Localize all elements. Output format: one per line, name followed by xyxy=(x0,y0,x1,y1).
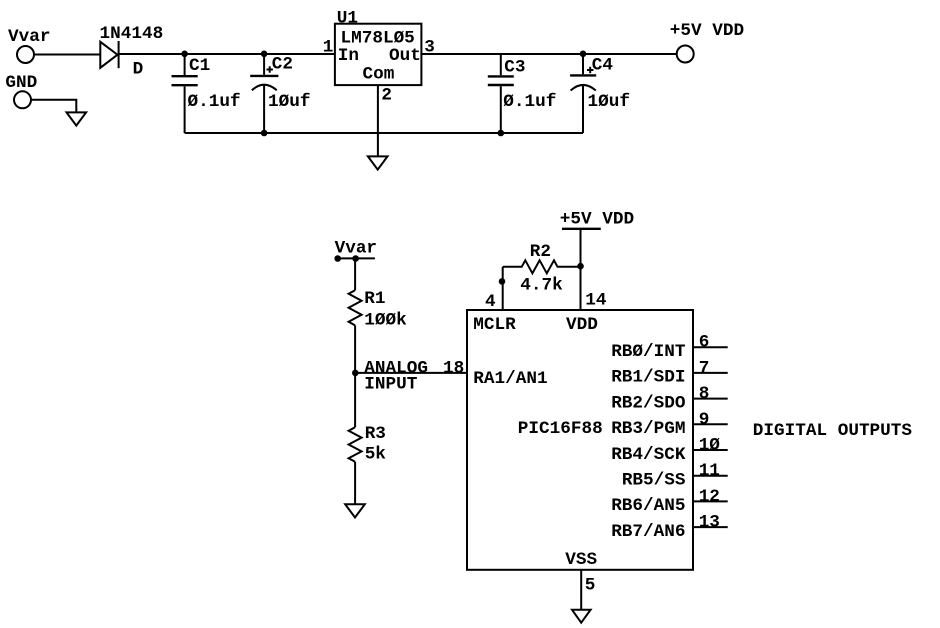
wire Vvar to R1 xyxy=(354,258,356,290)
svg-text:GND: GND xyxy=(5,73,37,93)
svg-text:RB1/SDI: RB1/SDI xyxy=(611,368,685,388)
op-amp U2 PIC16F88 box xyxy=(467,310,693,570)
wire pin 13 xyxy=(693,526,728,528)
label C2 plus sign xyxy=(267,66,273,72)
svg-text:MCLR: MCLR xyxy=(473,315,516,335)
wire pin 9 xyxy=(693,423,728,425)
wire pin 10 xyxy=(693,449,728,451)
svg-text:VDD: VDD xyxy=(566,315,598,335)
resistor R1 xyxy=(349,290,362,325)
wire pin 6 xyxy=(693,346,728,348)
wire pin 7 xyxy=(693,372,728,374)
svg-text:Ø.1uf: Ø.1uf xyxy=(503,92,556,112)
wire analog node to R3 xyxy=(354,373,356,427)
svg-text:R3: R3 xyxy=(365,424,386,444)
wire Vvar to diode anode xyxy=(34,54,100,56)
svg-text:RB5/SS: RB5/SS xyxy=(622,471,686,491)
power +5V VDD bar xyxy=(562,228,601,230)
node junction dot MCLR wire xyxy=(499,278,506,285)
ground below U1 xyxy=(368,156,388,169)
wire R3 to ground xyxy=(354,462,356,505)
svg-text:C1: C1 xyxy=(189,56,210,76)
svg-text:4.7k: 4.7k xyxy=(520,276,563,296)
wire VSS pin 5 down xyxy=(580,570,582,610)
svg-text:RB6/AN5: RB6/AN5 xyxy=(611,496,685,516)
svg-text:11: 11 xyxy=(699,461,720,481)
wire +5V to pin 14 xyxy=(580,229,582,310)
capacitor C4 electrolytic xyxy=(570,54,596,133)
svg-text:7: 7 xyxy=(699,358,710,378)
node junction dot C4 top xyxy=(580,51,587,58)
wire MCLR pin 4 up xyxy=(502,267,504,310)
svg-text:Com: Com xyxy=(363,64,395,84)
svg-text:C3: C3 xyxy=(504,58,525,78)
node junction dot C2 bottom on rail xyxy=(261,130,268,137)
svg-text:PIC16F88: PIC16F88 xyxy=(518,419,603,439)
svg-text:RB3/PGM: RB3/PGM xyxy=(611,419,685,439)
wire U1 pin 3 to +5V terminal xyxy=(421,53,676,55)
svg-text:1ØØk: 1ØØk xyxy=(364,311,407,331)
svg-text:1Ø: 1Ø xyxy=(699,436,721,456)
wire pin 8 xyxy=(693,398,728,400)
op-amp U1 LM78L05 regulator box xyxy=(335,24,422,85)
svg-text:D: D xyxy=(133,60,144,80)
capacitor C2 electrolytic xyxy=(250,54,278,133)
ground below VSS xyxy=(572,610,591,623)
svg-text:RB4/SCK: RB4/SCK xyxy=(611,445,686,465)
node junction dot Vvar left xyxy=(334,255,341,262)
svg-text:12: 12 xyxy=(699,487,720,507)
svg-text:+5V VDD: +5V VDD xyxy=(670,21,744,41)
svg-text:R2: R2 xyxy=(530,242,551,262)
terminal +5V VDD circle xyxy=(677,46,694,63)
wire pin 12 xyxy=(693,500,728,502)
capacitor C3 xyxy=(488,54,514,133)
wire analog node to pin 18 xyxy=(355,372,467,374)
svg-text:RB2/SDO: RB2/SDO xyxy=(611,393,685,413)
svg-text:R1: R1 xyxy=(364,289,385,309)
wire Vvar stub xyxy=(337,257,375,259)
svg-text:5k: 5k xyxy=(365,444,387,464)
svg-text:5: 5 xyxy=(585,575,596,595)
node junction dot Vvar tap xyxy=(352,255,359,262)
label C4 plus sign xyxy=(587,67,593,73)
svg-text:Ø.1uf: Ø.1uf xyxy=(188,92,241,112)
terminal Vvar circle xyxy=(17,46,34,63)
capacitor C1 xyxy=(172,54,198,133)
svg-text:8: 8 xyxy=(699,384,710,404)
wire diode cathode to U1 pin 1 xyxy=(119,53,335,55)
svg-text:In: In xyxy=(338,46,359,66)
node junction dot R2 right xyxy=(577,263,584,270)
svg-text:1N4148: 1N4148 xyxy=(100,24,164,44)
svg-text:Out: Out xyxy=(389,46,421,66)
svg-text:1Øuf: 1Øuf xyxy=(268,92,310,112)
svg-text:2: 2 xyxy=(381,85,392,105)
svg-text:Vvar: Vvar xyxy=(8,27,50,47)
svg-text:VSS: VSS xyxy=(565,550,597,570)
svg-text:C2: C2 xyxy=(272,54,293,74)
terminal GND circle xyxy=(14,91,31,108)
svg-text:13: 13 xyxy=(699,513,720,533)
wire ground rail under capacitors xyxy=(185,132,583,134)
svg-text:U1: U1 xyxy=(337,9,358,29)
svg-text:RBØ/INT: RBØ/INT xyxy=(611,342,686,362)
diode D 1N4148 xyxy=(100,41,118,68)
wire U1 pin 2 down xyxy=(377,85,379,156)
svg-text:1Øuf: 1Øuf xyxy=(588,92,630,112)
svg-text:RB7/AN6: RB7/AN6 xyxy=(611,522,685,542)
wire R1 to analog node xyxy=(354,325,356,373)
node junction dot C3 bottom on rail xyxy=(498,130,505,137)
svg-text:INPUT: INPUT xyxy=(364,375,417,395)
svg-text:6: 6 xyxy=(699,333,710,353)
svg-text:DIGITAL OUTPUTS: DIGITAL OUTPUTS xyxy=(753,421,913,441)
svg-text:9: 9 xyxy=(699,410,710,430)
svg-text:18: 18 xyxy=(443,359,464,379)
svg-text:+5V VDD: +5V VDD xyxy=(560,209,634,229)
ground below R3 xyxy=(345,504,365,517)
resistor R2 xyxy=(503,260,581,273)
resistor R3 xyxy=(349,427,362,462)
node junction dot analog input xyxy=(352,370,359,377)
svg-text:1: 1 xyxy=(323,37,334,57)
svg-text:14: 14 xyxy=(585,290,607,310)
svg-text:RA1/AN1: RA1/AN1 xyxy=(473,369,547,389)
node junction dot C2 top xyxy=(261,51,268,58)
node junction dot C1 top xyxy=(181,51,188,58)
ground at GND terminal xyxy=(67,112,87,125)
wire pin 11 xyxy=(693,475,728,477)
svg-text:C4: C4 xyxy=(592,56,614,76)
wire GND to ground symbol xyxy=(31,100,76,113)
